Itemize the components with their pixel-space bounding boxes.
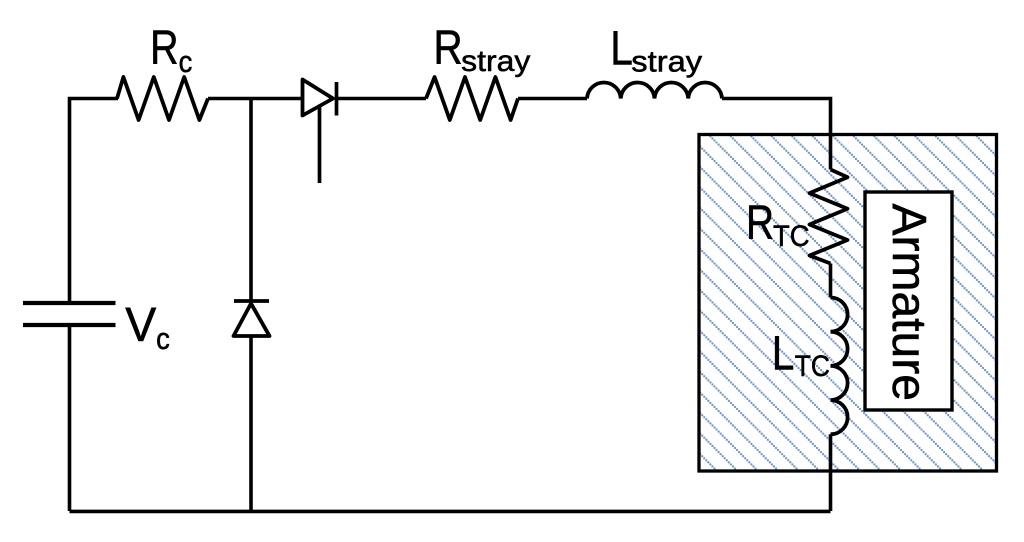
- capacitor Vc bottom plate: [23, 323, 116, 327]
- armature outer box (hatched): [699, 135, 997, 472]
- wire left rail top: [70, 99, 119, 302]
- svg-text:L: L: [610, 22, 633, 75]
- svg-text:stray: stray: [631, 45, 702, 78]
- svg-text:R: R: [150, 21, 178, 75]
- thyristor SCR triangle: [303, 80, 334, 116]
- svg-text:c: c: [156, 323, 170, 357]
- wire RTC to LTC: [829, 264, 833, 298]
- wire Rstray to Lstray: [518, 97, 587, 101]
- svg-text:R: R: [434, 22, 463, 75]
- wire Lstray to box, turning down into RTC: [722, 99, 831, 170]
- capacitor Vc top plate: [23, 301, 116, 305]
- svg-text:TC: TC: [773, 220, 810, 253]
- node A (junction of Rc, thyristor, freewheel diode branch): [249, 99, 253, 302]
- inductor Lstray: [587, 83, 722, 99]
- wire Rc to thyristor: [208, 97, 303, 101]
- resistor Rc: [117, 77, 208, 120]
- diode D1 cathode bar: [234, 299, 269, 303]
- svg-text:c: c: [179, 45, 193, 79]
- resistor Rstray: [426, 77, 518, 120]
- wire diode to bottom rail: [249, 336, 253, 511]
- diode D1 triangle: [234, 304, 270, 337]
- armature inner label box: [865, 192, 952, 410]
- svg-text:V: V: [125, 299, 157, 353]
- svg-text:L: L: [772, 327, 795, 380]
- svg-text:R: R: [746, 197, 774, 250]
- inductor LTC: [831, 298, 848, 435]
- thyristor SCR gate: [318, 107, 322, 184]
- resistor RTC: [810, 170, 848, 264]
- wire thyristor to Rstray: [337, 97, 427, 101]
- wire LTC to bottom rail: [829, 434, 833, 511]
- thyristor SCR cathode bar: [335, 82, 339, 116]
- wire bottom rail: [70, 510, 831, 514]
- wire left rail bottom: [68, 325, 72, 511]
- svg-text:stray: stray: [461, 44, 531, 78]
- svg-text:Armature: Armature: [882, 204, 935, 401]
- svg-text:TC: TC: [795, 348, 830, 382]
